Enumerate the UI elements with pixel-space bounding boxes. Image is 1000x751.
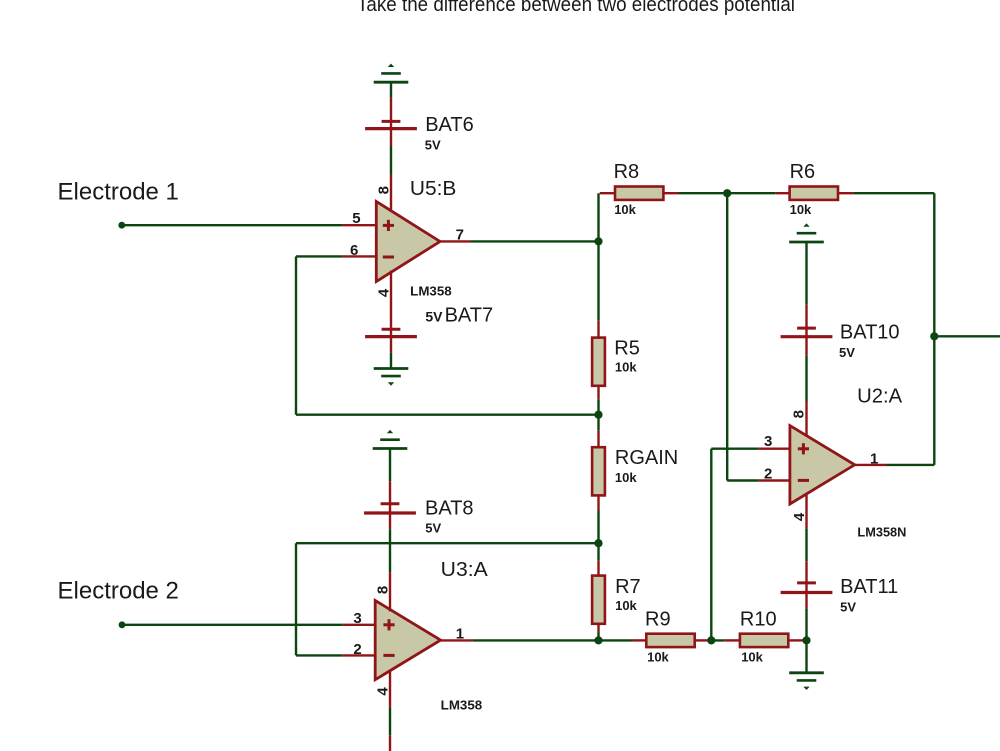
wire R8 to junction xyxy=(679,192,727,194)
svg-text:R6: R6 xyxy=(790,161,816,183)
wire U3:A pin2 left xyxy=(296,654,342,656)
battery BAT6 top pin xyxy=(390,98,392,122)
node Electrode 2 terminal xyxy=(119,621,126,628)
node U5:B output junction xyxy=(594,237,602,245)
svg-text:R10: R10 xyxy=(740,608,777,630)
minus input marker U3:A xyxy=(383,654,394,657)
svg-text:5V: 5V xyxy=(425,309,443,325)
pin 3 stub U3:A xyxy=(342,624,376,626)
wire junction down to U2:A output xyxy=(933,336,935,465)
svg-text:5: 5 xyxy=(352,210,360,227)
wire U5:B pin6 left xyxy=(296,255,342,257)
ground above BAT8 xyxy=(387,430,393,433)
resistor R7 xyxy=(592,576,605,624)
wire junction to R6 xyxy=(727,192,776,194)
svg-text:U3:A: U3:A xyxy=(441,559,489,581)
wire U3:A pin4 down xyxy=(389,708,391,736)
resistor R6 left pin xyxy=(776,192,790,194)
plus input marker U5:B xyxy=(383,224,394,227)
op-amp U3:A xyxy=(375,601,440,680)
svg-text:10k: 10k xyxy=(615,470,637,485)
resistor R7 bottom pin xyxy=(597,624,599,633)
svg-text:3: 3 xyxy=(764,433,772,450)
svg-text:10k: 10k xyxy=(790,202,812,217)
ground below BAT11 xyxy=(789,671,824,674)
minus input marker U5:B xyxy=(383,256,394,259)
pin 4 stub U2:A xyxy=(805,493,807,528)
svg-text:U2:A: U2:A xyxy=(857,385,903,407)
pin 3 stub U2:A xyxy=(759,448,791,450)
wire ground to BAT10 xyxy=(805,242,807,305)
node R9-R10 junction xyxy=(707,636,715,644)
resistor R9 left pin xyxy=(632,639,646,641)
svg-text:BAT8: BAT8 xyxy=(425,497,474,519)
battery BAT11 bottom pin xyxy=(805,593,807,609)
wire BAT11 to bottom node xyxy=(805,609,807,641)
svg-text:8: 8 xyxy=(790,410,807,418)
pin 1 output stub U3:A xyxy=(440,639,473,641)
wire node to RGAIN xyxy=(597,415,599,431)
resistor R9 right pin xyxy=(695,639,708,641)
svg-text:5V: 5V xyxy=(425,138,441,153)
svg-text:Electrode 1: Electrode 1 xyxy=(58,178,179,205)
svg-text:R5: R5 xyxy=(614,337,640,359)
svg-text:4: 4 xyxy=(791,512,808,521)
wire feedback vertical x296 xyxy=(295,256,297,414)
resistor R10 xyxy=(740,634,788,647)
wire node corner to R8 row xyxy=(597,193,599,321)
wire ground to BAT6 xyxy=(390,82,392,97)
wire electrode2 to U3:A pin3 xyxy=(122,624,342,626)
wire BAT8 to U3:A pin8 xyxy=(389,529,391,572)
wire right column down xyxy=(933,193,935,336)
plus input marker U2:A xyxy=(798,447,809,450)
svg-text:8: 8 xyxy=(376,186,393,194)
battery BAT11 top pin xyxy=(805,561,807,583)
resistor R10 right pin xyxy=(788,639,802,641)
svg-text:10k: 10k xyxy=(741,649,763,664)
svg-text:Take the difference between tw: Take the difference between two electrod… xyxy=(357,0,795,16)
plus input marker U3:A xyxy=(383,623,394,626)
svg-text:LM358N: LM358N xyxy=(857,524,906,539)
svg-text:LM358: LM358 xyxy=(410,283,452,298)
pin 1 stub U2:A xyxy=(854,464,887,466)
resistor R8 xyxy=(615,187,663,200)
node BAT11 junction xyxy=(802,636,810,644)
pin 5 stub U5:B xyxy=(342,224,377,226)
pin 4 stub U5:B xyxy=(390,271,392,328)
resistor R5 top pin xyxy=(597,321,599,338)
node R8-R6 junction xyxy=(723,189,731,197)
wire node to R9 xyxy=(599,639,633,641)
battery BAT7 xyxy=(382,328,401,331)
resistor R6 right pin xyxy=(838,192,854,194)
resistor RGAIN xyxy=(592,447,605,495)
pin 8 stub U5:B xyxy=(390,175,392,213)
resistor R6 xyxy=(790,187,838,200)
svg-text:10k: 10k xyxy=(615,360,637,375)
wire BAT6 to U5:B pin8 xyxy=(390,146,392,175)
resistor RGAIN bottom pin xyxy=(597,495,599,511)
wire junction to R10 xyxy=(708,639,725,641)
ground above BAT10 xyxy=(803,223,809,226)
wire U2:A pin2 horizontal xyxy=(727,479,759,481)
op-amp U5:B xyxy=(376,202,440,282)
svg-text:BAT11: BAT11 xyxy=(840,576,898,598)
battery BAT10 top pin xyxy=(805,305,807,328)
pin 7 output stub U5:B xyxy=(439,240,471,242)
wire U2:A output right xyxy=(887,464,934,466)
wire BAT10 to U2:A pin8 xyxy=(805,355,807,401)
wire node to R7 xyxy=(597,543,599,561)
svg-text:R8: R8 xyxy=(614,161,640,183)
node output junction xyxy=(930,332,938,340)
node R5-RGAIN junction xyxy=(594,411,602,419)
svg-text:10k: 10k xyxy=(615,598,637,613)
wire feedback horizontal to R5/RGAIN node xyxy=(296,414,599,416)
svg-text:BAT6: BAT6 xyxy=(425,114,474,136)
svg-text:U5:B: U5:B xyxy=(410,178,457,200)
wire output to edge xyxy=(934,335,1000,337)
resistor RGAIN top pin xyxy=(597,430,599,447)
op-amp U2:A xyxy=(790,426,855,504)
svg-text:Electrode 2: Electrode 2 xyxy=(58,578,179,605)
wire U2:A pin4 to BAT11 xyxy=(805,528,807,561)
pin 2 stub U3:A xyxy=(342,654,376,656)
svg-text:3: 3 xyxy=(353,610,361,627)
svg-text:2: 2 xyxy=(764,465,772,482)
svg-text:BAT10: BAT10 xyxy=(840,322,900,344)
wire electrode1 to U5:B pin5 xyxy=(122,224,343,226)
svg-text:5V: 5V xyxy=(840,599,856,614)
svg-text:LM358: LM358 xyxy=(441,697,483,712)
pin 8 stub U3:A xyxy=(389,572,391,611)
svg-text:BAT7: BAT7 xyxy=(445,305,494,327)
wire U5:B output to node xyxy=(471,240,599,242)
svg-text:10k: 10k xyxy=(647,649,669,664)
wire feedback vertical x296 down xyxy=(295,543,297,655)
svg-text:R9: R9 xyxy=(645,608,671,630)
svg-text:4: 4 xyxy=(375,288,392,297)
battery BAT11 xyxy=(797,581,816,584)
node bottom junction R7/U3:A output xyxy=(594,636,602,644)
battery BAT6 bottom pin xyxy=(390,129,392,146)
svg-text:8: 8 xyxy=(375,586,392,594)
resistor R8 left pin xyxy=(600,192,615,194)
wire node to ground xyxy=(805,640,807,672)
resistor R5 xyxy=(592,338,605,386)
battery BAT10 bottom pin xyxy=(805,337,807,356)
wire R5 to node xyxy=(597,399,599,415)
pin 2 stub U2:A xyxy=(759,479,791,481)
pin 4 stub U3:A xyxy=(389,670,391,708)
pin 8 stub U2:A xyxy=(805,401,807,437)
resistor R8 right pin xyxy=(663,192,679,194)
resistor R10 left pin xyxy=(724,639,740,641)
wire ground to BAT8 xyxy=(389,449,391,482)
ground below BAT7 xyxy=(374,367,409,370)
minus input marker U2:A xyxy=(798,479,809,482)
node Electrode 1 terminal xyxy=(118,222,125,229)
wire U3:A output to bottom node xyxy=(473,639,599,641)
wire R8-R6 junction down to U2:A pin2 xyxy=(726,193,728,480)
battery BAT8 xyxy=(381,502,400,505)
battery BAT10 xyxy=(797,327,816,330)
ground above BAT6 xyxy=(388,64,394,67)
pin 6 stub U5:B xyxy=(342,255,377,257)
battery BAT8 bottom pin xyxy=(389,513,391,529)
battery BAT9 top pin (partial at edge) xyxy=(389,735,391,751)
svg-text:RGAIN: RGAIN xyxy=(615,447,678,469)
wire R6 to right column xyxy=(854,192,935,194)
svg-text:1: 1 xyxy=(456,625,464,642)
resistor R7 top pin xyxy=(597,561,599,576)
battery BAT7 bottom pin xyxy=(390,337,392,353)
svg-text:6: 6 xyxy=(350,242,358,259)
wire U2:A pin3 horizontal xyxy=(711,448,759,450)
wire RGAIN to node xyxy=(597,511,599,543)
svg-text:4: 4 xyxy=(375,687,392,696)
wire R7 to bottom node xyxy=(597,633,599,641)
svg-text:R7: R7 xyxy=(615,576,641,598)
resistor R9 xyxy=(646,634,694,647)
svg-text:5V: 5V xyxy=(425,521,441,536)
svg-text:10k: 10k xyxy=(614,202,636,217)
svg-text:1: 1 xyxy=(870,450,878,467)
svg-text:2: 2 xyxy=(353,641,361,658)
node RGAIN-R7 junction xyxy=(594,539,602,547)
wire feedback horizontal RGAIN-R7 node to left xyxy=(296,542,599,544)
resistor R5 bottom pin xyxy=(597,386,599,399)
wire BAT7 to ground xyxy=(390,353,392,369)
svg-text:7: 7 xyxy=(456,227,464,244)
wire bottom node up to U2:A pin3 xyxy=(710,449,712,641)
svg-text:5V: 5V xyxy=(839,345,855,360)
battery BAT8 top pin xyxy=(389,481,391,504)
battery BAT6 xyxy=(382,120,401,123)
